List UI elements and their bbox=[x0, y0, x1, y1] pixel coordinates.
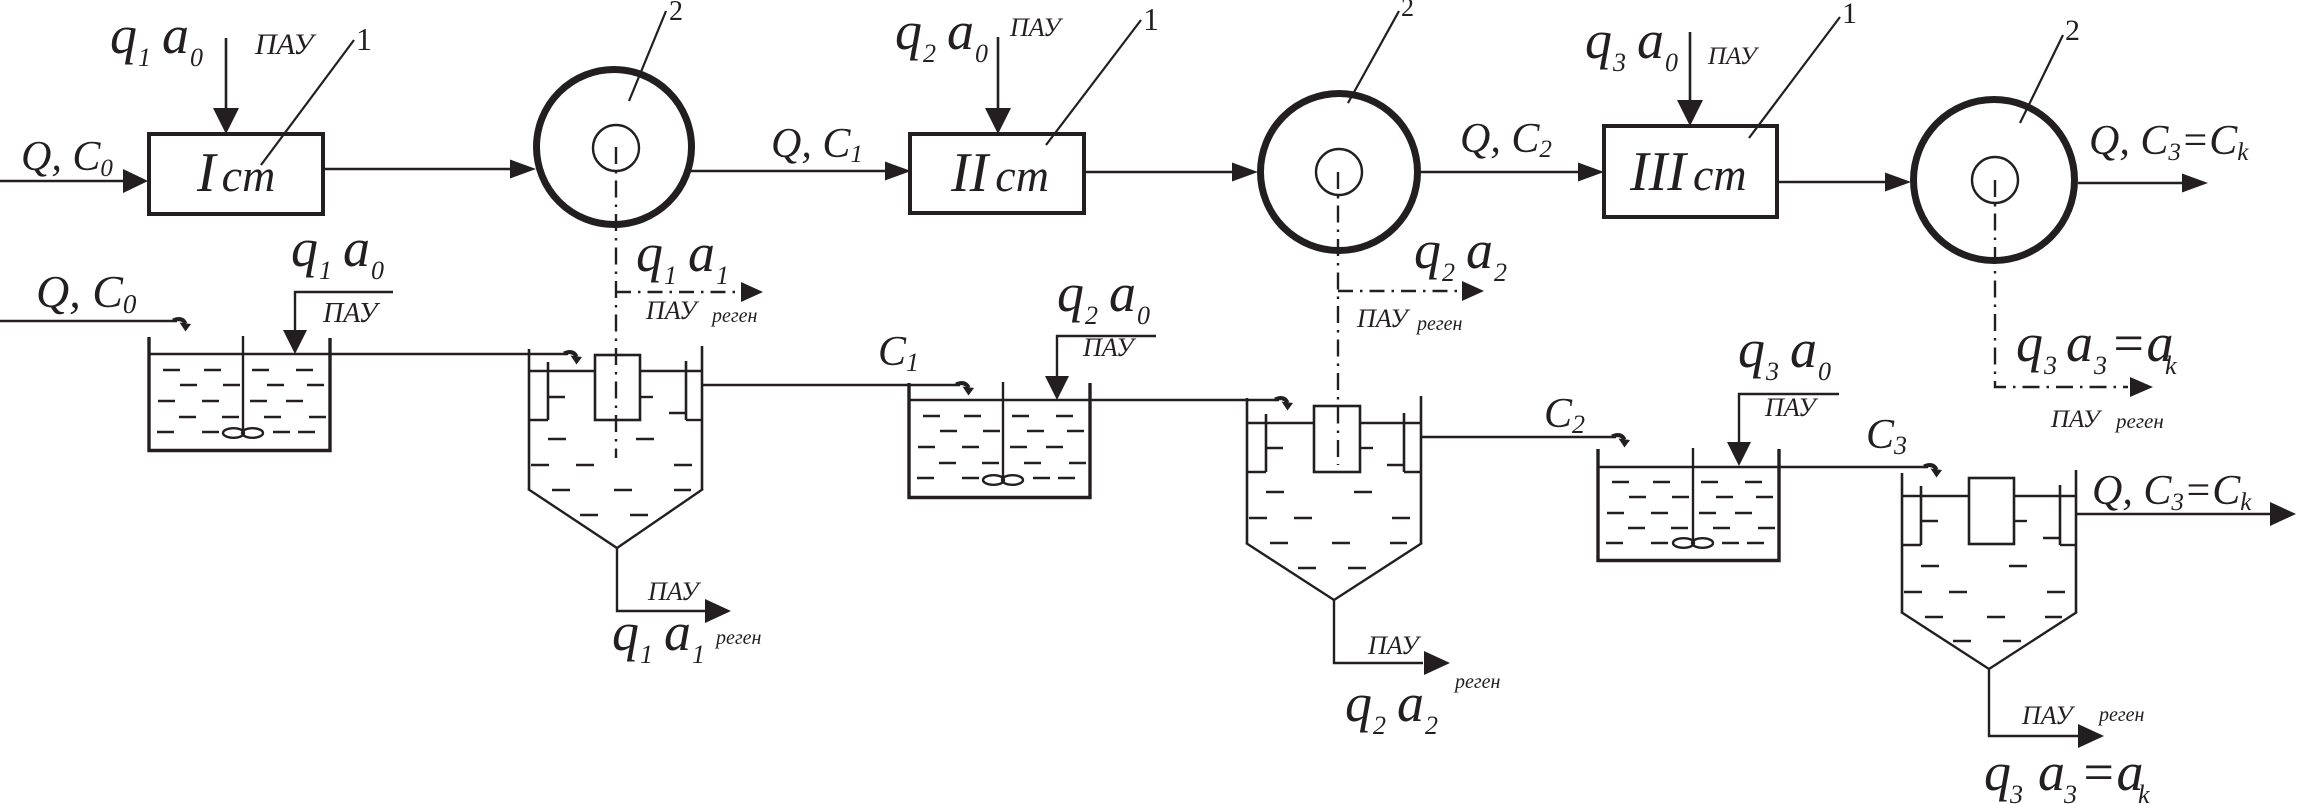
dash-dot axis from filter 1 down to settler 1 bbox=[615, 147, 617, 458]
settler 1 right baffle bbox=[685, 361, 688, 420]
callout line 1 to block II bbox=[1046, 20, 1141, 145]
wire filter 1 to block II bbox=[690, 170, 885, 172]
settler 2 bbox=[1246, 396, 1450, 675]
filter circle 1 bbox=[537, 70, 692, 225]
svg-text:q1a1: q1a1 bbox=[636, 223, 729, 290]
wire block I to filter 1 bbox=[323, 168, 510, 170]
settler 1 left baffle bbox=[547, 362, 550, 420]
dash-dot regen line from filter 3 bbox=[1995, 180, 2128, 387]
callout line 1 to block I bbox=[261, 40, 354, 165]
wire settler 3 outlet Q, C3=Ck bbox=[2076, 513, 2271, 515]
svg-text:Q, C2: Q, C2 bbox=[1460, 116, 1552, 163]
callout line 2 to filter 3 bbox=[2020, 35, 2063, 123]
water line tank3 to settler 3 bbox=[1598, 466, 1928, 468]
svg-text:C2: C2 bbox=[1544, 391, 1585, 439]
svg-text:ПАУ: ПАУ bbox=[254, 28, 317, 61]
svg-text:C3: C3 bbox=[1866, 412, 1907, 460]
tank 1 bottom bbox=[148, 449, 332, 452]
svg-text:1: 1 bbox=[1842, 0, 1857, 30]
svg-text:реген: реген bbox=[1415, 313, 1463, 335]
svg-text:реген: реген bbox=[710, 305, 758, 327]
wire filter 2 to block III bbox=[1421, 171, 1578, 173]
filter circle 2 bbox=[1261, 94, 1418, 251]
svg-text:q2a2: q2a2 bbox=[1345, 673, 1438, 740]
svg-text:IIIст: IIIст bbox=[1629, 141, 1747, 203]
mixer tank 1 bbox=[148, 336, 332, 452]
PAU dosing arrow into tank 3 bbox=[1739, 394, 1839, 442]
svg-text:1: 1 bbox=[356, 21, 372, 57]
svg-text:реген: реген bbox=[2114, 409, 2164, 433]
svg-text:q3a0: q3a0 bbox=[1738, 319, 1831, 386]
svg-text:ПАУ: ПАУ bbox=[1764, 393, 1819, 422]
svg-text:ПАУ: ПАУ bbox=[645, 296, 700, 325]
filter circle 3 bbox=[1914, 100, 2075, 261]
svg-text:ПАУ: ПАУ bbox=[1082, 333, 1137, 362]
block III ст bbox=[1604, 126, 1777, 217]
settler 3 bbox=[1901, 470, 2104, 748]
dash-dot regen arrow filter 1 bbox=[616, 291, 740, 293]
svg-text:q3a3=ak: q3a3=ak bbox=[2016, 313, 2177, 380]
svg-text:реген: реген bbox=[2097, 704, 2145, 726]
svg-text:ПАУ: ПАУ bbox=[1356, 304, 1411, 333]
svg-text:q1a0: q1a0 bbox=[291, 218, 384, 285]
wire block III to filter 3 bbox=[1777, 181, 1885, 183]
tank 1 left wall bbox=[147, 337, 150, 452]
dash-dot axis from filter 2 down to settler 2 bbox=[1337, 172, 1339, 465]
svg-text:2: 2 bbox=[1401, 0, 1414, 22]
settler 1 right wall bbox=[701, 346, 704, 490]
svg-text:q3a0: q3a0 bbox=[1585, 10, 1678, 77]
dash-dot regen arrow filter 2 bbox=[1338, 290, 1461, 292]
mixer tank 3 bbox=[1597, 448, 1781, 562]
tank 1 impeller bbox=[223, 428, 244, 438]
wire filter 3 outlet bbox=[2078, 182, 2182, 184]
settler 1 sludge hatching bbox=[531, 439, 692, 515]
wire block II to filter 2 bbox=[1084, 171, 1232, 173]
svg-text:ПАУ: ПАУ bbox=[1707, 43, 1760, 70]
svg-text:q2a0: q2a0 bbox=[895, 1, 988, 68]
water line tank1 to settler 1 bbox=[149, 353, 568, 355]
svg-text:Q, C3=Ck: Q, C3=Ck bbox=[2092, 468, 2252, 516]
PAU feed arrow into block III bbox=[1689, 32, 1692, 104]
svg-text:q3a3=ak: q3a3=ak bbox=[1984, 742, 2150, 804]
callout line 1 to block III bbox=[1749, 17, 1840, 138]
block I ст bbox=[149, 134, 323, 214]
mixer tank 2 bbox=[908, 382, 1092, 499]
settler 1 feed well bbox=[595, 355, 640, 420]
tank 1 water hatching bbox=[157, 370, 326, 432]
settler 1 sludge pipe with PAU regen arrow bbox=[617, 548, 706, 611]
block II ст bbox=[910, 134, 1084, 213]
settler 1 water line bbox=[529, 370, 595, 372]
tank 1 mixer shaft bbox=[242, 336, 244, 430]
svg-text:1: 1 bbox=[1143, 1, 1159, 37]
svg-text:Q, C3=Ck: Q, C3=Ck bbox=[2089, 118, 2249, 166]
svg-text:ПАУ: ПАУ bbox=[322, 298, 381, 329]
wire settler 2 to tank 3 (C2) bbox=[1421, 436, 1616, 438]
svg-text:ПАУ: ПАУ bbox=[2021, 701, 2076, 730]
svg-text:ПАУ: ПАУ bbox=[1367, 631, 1422, 660]
wire settler 1 to tank 2 (C1) bbox=[702, 384, 960, 386]
svg-text:Q, C0: Q, C0 bbox=[21, 134, 113, 182]
svg-text:Q, C0: Q, C0 bbox=[36, 266, 137, 319]
water line tank2 to settler 2 bbox=[909, 399, 1279, 401]
callout line 2 to filter 2 bbox=[1348, 11, 1399, 103]
settler 1 left wall bbox=[528, 349, 531, 490]
wire Q,C0 into mixer tank 1 bbox=[0, 320, 177, 322]
svg-text:IIст: IIст bbox=[950, 142, 1049, 204]
wire Q,C0 into stage I bbox=[0, 180, 124, 182]
svg-text:q2a0: q2a0 bbox=[1057, 263, 1150, 330]
svg-text:2: 2 bbox=[669, 0, 683, 27]
PAU feed arrow into block I bbox=[225, 38, 228, 112]
settler 1 bbox=[528, 346, 731, 623]
settler 1 feed well tick bbox=[640, 396, 653, 398]
svg-text:ПАУ: ПАУ bbox=[2050, 406, 2103, 433]
PAU feed arrow into block II bbox=[997, 37, 1000, 112]
svg-text:ПАУ: ПАУ bbox=[1009, 13, 1064, 42]
svg-text:Iст: Iст bbox=[196, 142, 275, 204]
svg-text:Q, C1: Q, C1 bbox=[771, 121, 863, 168]
svg-text:C1: C1 bbox=[878, 329, 919, 377]
svg-text:q2a2: q2a2 bbox=[1414, 220, 1507, 287]
callout line 2 to filter 1 bbox=[629, 11, 666, 101]
settler 1 funnel bbox=[528, 489, 703, 548]
svg-text:реген: реген bbox=[714, 627, 762, 649]
PAU dosing arrow into tank 2 bbox=[1057, 336, 1156, 378]
PAU dosing arrow into tank 1 bbox=[295, 292, 393, 332]
svg-text:реген: реген bbox=[1453, 671, 1501, 693]
tank 1 right wall bbox=[328, 338, 331, 452]
svg-text:q1a0: q1a0 bbox=[110, 5, 203, 72]
svg-text:2: 2 bbox=[2065, 14, 2080, 47]
